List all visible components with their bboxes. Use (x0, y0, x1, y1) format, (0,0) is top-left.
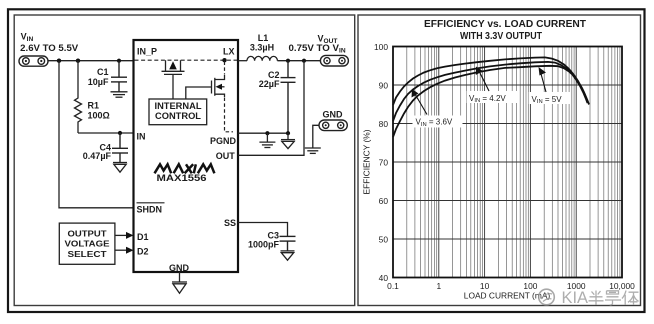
svg-text:10µF: 10µF (88, 77, 109, 87)
svg-text:1000pF: 1000pF (248, 240, 280, 250)
MAXIM logo (155, 164, 215, 173)
block INTERNAL CONTROL (149, 99, 207, 125)
curve VIN=5V (393, 66, 589, 137)
junction VIN-C1 (117, 59, 121, 63)
svg-text:1: 1 (436, 281, 441, 291)
svg-text:CONTROL: CONTROL (155, 111, 202, 121)
svg-text:100Ω: 100Ω (88, 111, 110, 121)
ground PGND rail (259, 133, 275, 147)
svg-text:D1: D1 (137, 232, 149, 242)
svg-text:50: 50 (379, 235, 389, 245)
wire L1 to VOUT connector (277, 60, 320, 62)
ground GND connector (305, 148, 321, 153)
label VIN=5V with arrow (529, 92, 571, 104)
wire VIN to SHDN (59, 61, 134, 208)
svg-text:LOAD CURRENT (mA): LOAD CURRENT (mA) (464, 291, 551, 301)
svg-text:L1: L1 (258, 33, 269, 43)
wire R1 to IN pin (78, 132, 134, 134)
svg-text:70: 70 (379, 158, 389, 168)
op IC U1 MAX1556 body (134, 40, 239, 272)
chart major gridlines (393, 47, 622, 278)
junction LX internal (222, 58, 226, 62)
svg-text:KIA: KIA (562, 288, 589, 307)
svg-text:C1: C1 (97, 67, 109, 77)
ground C3 (triangle) (281, 251, 295, 260)
wire internal dashed rail IN_P to LX (135, 59, 238, 61)
capacitor C2 (281, 61, 296, 134)
junction VOUT-OUT (302, 59, 306, 63)
svg-text:VIN: VIN (21, 32, 34, 44)
wire PGND rail (238, 132, 288, 134)
svg-text:SHDN: SHDN (137, 204, 163, 214)
svg-text:WITH 3.3V OUTPUT: WITH 3.3V OUTPUT (460, 30, 542, 42)
svg-text:22µF: 22µF (259, 79, 280, 89)
junction PGND-ground (265, 131, 269, 135)
svg-text:LX: LX (223, 47, 235, 57)
chart y tick labels (374, 42, 388, 283)
svg-text:OUT: OUT (216, 151, 236, 161)
chart x tick labels (387, 281, 635, 291)
block OUTPUT VOLTAGE SELECT (59, 223, 115, 264)
svg-text:SS: SS (224, 218, 236, 228)
junction IN-C4 (118, 131, 122, 135)
wire GND pin stub (179, 272, 181, 282)
transistor Q1 PMOS (162, 60, 185, 99)
svg-text:60: 60 (379, 196, 389, 206)
svg-text:VIN = 5V: VIN = 5V (532, 95, 563, 105)
curve VIN=4.2V (393, 62, 588, 121)
svg-text:100: 100 (523, 281, 537, 291)
svg-text:D2: D2 (137, 246, 149, 256)
wire LX out (238, 60, 247, 62)
svg-text:IN: IN (339, 47, 346, 54)
connector J-VOUT (320, 55, 348, 66)
svg-text:SELECT: SELECT (68, 249, 108, 259)
svg-text:OUTPUT: OUTPUT (68, 229, 108, 239)
svg-text:GND: GND (323, 110, 344, 120)
svg-text:2.6V TO 5.5V: 2.6V TO 5.5V (20, 43, 79, 54)
svg-text:10,000: 10,000 (609, 281, 635, 291)
svg-text:3.3µH: 3.3µH (250, 42, 274, 52)
wire select to D2 with arrow (115, 249, 128, 251)
resistor R1 (75, 61, 82, 133)
svg-text:PGND: PGND (210, 136, 237, 146)
svg-text:EFFICIENCY vs. LOAD CURRENT: EFFICIENCY vs. LOAD CURRENT (424, 18, 587, 30)
svg-text:10: 10 (480, 281, 490, 291)
wire VOUT feedback to OUT (238, 61, 304, 156)
svg-text:VOLTAGE: VOLTAGE (65, 239, 110, 249)
svg-text:0.47µF: 0.47µF (83, 151, 112, 161)
wire SS to C3 (238, 223, 288, 237)
wire dashed LX to NMOS drain (224, 62, 226, 75)
wire GND connector to ground (313, 125, 319, 148)
svg-text:GND: GND (169, 263, 190, 273)
capacitor C1 (111, 61, 127, 92)
ground GND pin (triangle) (172, 282, 187, 293)
svg-text:R1: R1 (88, 100, 100, 110)
junction LX-C2 (286, 59, 290, 63)
ground C1 (111, 92, 128, 97)
wire select to D1 with arrow (115, 234, 128, 236)
chart plot border (393, 47, 622, 278)
svg-text:0.1: 0.1 (387, 281, 399, 291)
connector J-GND (319, 120, 347, 131)
junction PGND-C2 (286, 131, 290, 135)
wire dashed NMOS source to PGND (225, 98, 234, 132)
watermark logo circle (539, 289, 555, 305)
wire VIN rail to IN_P (48, 60, 134, 62)
label VIN=4.2V with arrow (467, 91, 518, 103)
junction VIN-R1 (76, 59, 80, 63)
svg-text:IN: IN (137, 132, 146, 142)
chart minor gridlines (407, 47, 620, 278)
connector J-VIN (19, 56, 48, 66)
svg-text:80: 80 (379, 119, 389, 129)
label VIN=3.6V with arrow (413, 116, 463, 128)
capacitor C4 (112, 133, 128, 162)
capacitor C3 (280, 236, 296, 250)
svg-text:100: 100 (374, 42, 388, 52)
svg-text:EFFICIENCY (%): EFFICIENCY (%) (362, 129, 372, 194)
curve VIN=3.6V (393, 57, 587, 105)
transistor Q2 NMOS (186, 75, 225, 99)
junction VIN-shdn (57, 59, 61, 63)
svg-text:90: 90 (379, 81, 389, 91)
right panel border (358, 15, 641, 306)
svg-text:MAX1556: MAX1556 (157, 173, 207, 184)
svg-text:INTERNAL: INTERNAL (155, 101, 203, 111)
svg-text:IN_P: IN_P (137, 47, 157, 57)
left panel border (14, 15, 355, 306)
ground C4 (triangle) (113, 163, 127, 173)
watermark text chinese (589, 291, 639, 306)
svg-text:0.75V TO V: 0.75V TO V (289, 43, 340, 54)
inductor L1 (247, 56, 277, 60)
ground C2 (triangle) (281, 133, 295, 148)
